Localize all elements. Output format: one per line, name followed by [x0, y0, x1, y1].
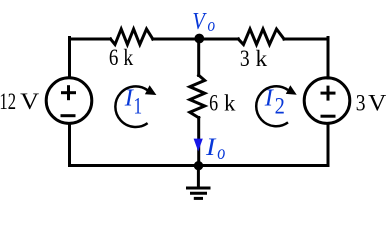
svg-text:I: I [264, 85, 275, 112]
svg-text:6: 6 [209, 90, 218, 115]
svg-text:V: V [192, 7, 207, 34]
svg-text:V: V [368, 91, 387, 116]
svg-text:2: 2 [275, 94, 285, 119]
svg-text:o: o [217, 142, 225, 164]
svg-text:6: 6 [109, 45, 119, 70]
svg-text:3: 3 [356, 91, 366, 116]
svg-text:k: k [224, 90, 236, 115]
svg-text:k: k [256, 46, 268, 71]
svg-text:12: 12 [0, 89, 16, 114]
svg-text:1: 1 [134, 94, 143, 119]
svg-text:V: V [20, 89, 39, 114]
svg-text:I: I [205, 134, 217, 161]
svg-text:3: 3 [240, 46, 250, 71]
svg-text:k: k [123, 45, 133, 70]
svg-text:o: o [208, 14, 216, 35]
